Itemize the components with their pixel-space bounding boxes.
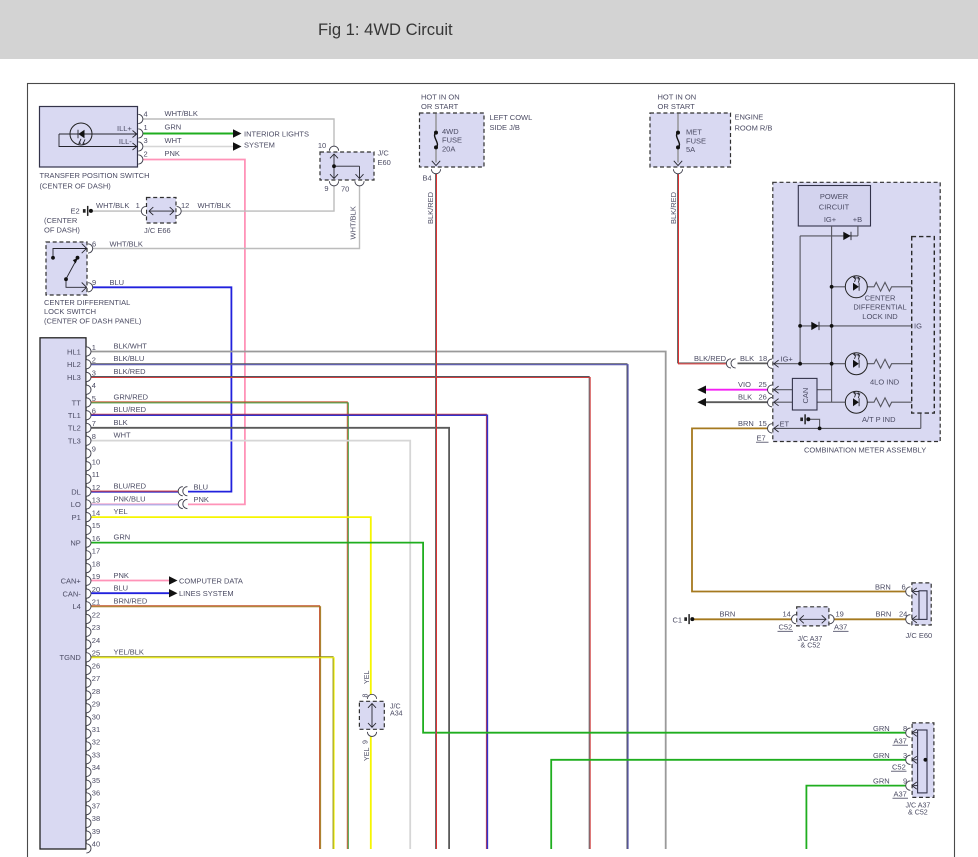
svg-text:26: 26	[759, 393, 767, 402]
svg-text:BLK/RED: BLK/RED	[426, 191, 435, 224]
svg-text:14: 14	[783, 610, 791, 619]
svg-text:3: 3	[144, 136, 148, 145]
svg-text:E60: E60	[378, 158, 391, 167]
svg-text:CAN-: CAN-	[62, 589, 81, 598]
svg-text:BLK/WHT: BLK/WHT	[114, 342, 148, 351]
svg-text:BLU: BLU	[194, 482, 209, 491]
svg-text:P1: P1	[72, 513, 81, 522]
svg-text:MET: MET	[686, 128, 702, 137]
svg-text:& C52: & C52	[801, 641, 821, 649]
svg-text:33: 33	[92, 751, 100, 760]
svg-text:BLU/RED: BLU/RED	[114, 405, 147, 414]
svg-text:IG: IG	[914, 322, 922, 331]
svg-text:ILL-: ILL-	[119, 137, 132, 146]
svg-text:11: 11	[92, 470, 100, 479]
svg-text:IG+: IG+	[824, 215, 837, 224]
svg-text:PNK/BLU: PNK/BLU	[114, 494, 146, 503]
svg-text:BLU: BLU	[114, 584, 129, 593]
svg-text:12: 12	[181, 201, 189, 210]
svg-text:BLK: BLK	[114, 418, 128, 427]
svg-text:12: 12	[92, 483, 100, 492]
svg-text:+B: +B	[853, 215, 862, 224]
svg-text:29: 29	[92, 700, 100, 709]
svg-text:IG+: IG+	[781, 355, 794, 364]
svg-text:14: 14	[92, 508, 100, 517]
svg-text:BLK/RED: BLK/RED	[669, 191, 678, 224]
svg-text:NP: NP	[70, 538, 80, 547]
svg-text:LOCK SWITCH: LOCK SWITCH	[44, 307, 96, 316]
svg-text:FUSE: FUSE	[686, 136, 706, 145]
svg-text:ET: ET	[780, 420, 790, 429]
svg-text:GRN/RED: GRN/RED	[114, 393, 149, 402]
svg-text:20A: 20A	[442, 144, 455, 153]
svg-text:BRN: BRN	[876, 610, 892, 619]
svg-text:15: 15	[759, 419, 767, 428]
svg-text:POWER: POWER	[820, 192, 849, 201]
svg-text:9: 9	[92, 445, 96, 454]
svg-text:15: 15	[92, 521, 100, 530]
svg-text:B4: B4	[423, 173, 432, 182]
svg-text:WHT/BLK: WHT/BLK	[349, 206, 358, 239]
svg-text:J/C E66: J/C E66	[144, 226, 171, 235]
svg-text:(CENTER OF DASH PANEL): (CENTER OF DASH PANEL)	[44, 317, 142, 326]
svg-text:31: 31	[92, 725, 100, 734]
svg-text:ILL+: ILL+	[117, 124, 132, 133]
svg-text:BRN: BRN	[738, 419, 754, 428]
svg-text:LOCK IND: LOCK IND	[862, 312, 898, 321]
svg-text:PNK: PNK	[194, 495, 209, 504]
svg-text:3: 3	[903, 751, 907, 760]
svg-text:CAN+: CAN+	[61, 577, 82, 586]
svg-text:YEL: YEL	[363, 748, 371, 761]
svg-text:A37: A37	[834, 622, 847, 631]
svg-text:WHT/BLK: WHT/BLK	[198, 201, 231, 210]
svg-text:13: 13	[92, 496, 100, 505]
svg-text:TL2: TL2	[68, 424, 81, 433]
svg-text:DL: DL	[71, 487, 81, 496]
svg-text:16: 16	[92, 534, 100, 543]
svg-text:BRN: BRN	[875, 582, 891, 591]
svg-text:19: 19	[836, 610, 844, 619]
svg-text:21: 21	[92, 598, 100, 607]
svg-text:& C52: & C52	[908, 808, 928, 816]
svg-text:23: 23	[92, 623, 100, 632]
svg-text:COMPUTER DATA: COMPUTER DATA	[179, 577, 243, 586]
svg-text:36: 36	[92, 789, 100, 798]
svg-text:35: 35	[92, 776, 100, 785]
svg-text:DIFFERENTIAL: DIFFERENTIAL	[853, 303, 906, 312]
svg-text:CENTER DIFFERENTIAL: CENTER DIFFERENTIAL	[44, 298, 130, 307]
svg-text:GRN: GRN	[873, 724, 890, 733]
svg-text:70: 70	[341, 185, 349, 194]
svg-text:BLU/RED: BLU/RED	[114, 482, 147, 491]
svg-text:22: 22	[92, 610, 100, 619]
svg-text:9: 9	[362, 740, 370, 744]
svg-text:37: 37	[92, 801, 100, 810]
svg-text:TRANSFER POSITION SWITCH: TRANSFER POSITION SWITCH	[40, 171, 150, 180]
svg-text:1: 1	[136, 201, 140, 210]
svg-text:INTERIOR LIGHTS: INTERIOR LIGHTS	[244, 129, 309, 138]
svg-text:CAN: CAN	[801, 388, 810, 404]
svg-text:BLK/RED: BLK/RED	[114, 367, 147, 376]
svg-text:6: 6	[92, 239, 96, 248]
svg-text:SYSTEM: SYSTEM	[244, 140, 275, 149]
svg-text:TGND: TGND	[60, 653, 82, 662]
svg-text:BRN/RED: BRN/RED	[114, 596, 148, 605]
svg-text:24: 24	[899, 610, 907, 619]
svg-text:GRN: GRN	[873, 751, 890, 760]
svg-text:OF DASH): OF DASH)	[44, 226, 80, 235]
svg-text:10: 10	[92, 458, 100, 467]
svg-text:26: 26	[92, 661, 100, 670]
svg-text:HOT IN ON: HOT IN ON	[421, 93, 460, 102]
svg-text:4LO IND: 4LO IND	[870, 378, 900, 387]
svg-text:BLK: BLK	[738, 393, 752, 402]
svg-text:25: 25	[759, 380, 767, 389]
svg-text:(CENTER: (CENTER	[44, 216, 78, 225]
svg-text:GRN: GRN	[873, 777, 890, 786]
svg-text:PNK: PNK	[114, 571, 129, 580]
svg-text:SIDE J/B: SIDE J/B	[490, 123, 520, 132]
svg-text:WHT: WHT	[114, 431, 131, 440]
svg-text:FUSE: FUSE	[442, 136, 462, 145]
svg-text:LEFT COWL: LEFT COWL	[490, 113, 533, 122]
svg-text:4WD: 4WD	[442, 127, 459, 136]
svg-text:E7: E7	[757, 433, 766, 442]
svg-text:25: 25	[92, 649, 100, 658]
svg-text:19: 19	[92, 572, 100, 581]
svg-text:C52: C52	[779, 622, 793, 631]
svg-text:GRN: GRN	[165, 123, 182, 132]
svg-text:20: 20	[92, 585, 100, 594]
svg-text:HOT IN ON: HOT IN ON	[658, 93, 697, 102]
svg-text:L4: L4	[72, 602, 80, 611]
svg-text:J/C E60: J/C E60	[906, 631, 933, 640]
svg-text:TL3: TL3	[68, 437, 81, 446]
svg-text:LO: LO	[71, 500, 81, 509]
svg-text:28: 28	[92, 687, 100, 696]
svg-text:C52: C52	[892, 762, 906, 771]
svg-text:COMBINATION METER ASSEMBLY: COMBINATION METER ASSEMBLY	[804, 445, 926, 454]
svg-text:6: 6	[902, 582, 906, 591]
svg-text:TL1: TL1	[68, 411, 81, 420]
svg-text:TT: TT	[72, 398, 82, 407]
svg-text:10: 10	[318, 141, 326, 150]
svg-text:HL1: HL1	[67, 347, 81, 356]
svg-text:4: 4	[92, 381, 96, 390]
svg-text:2: 2	[92, 356, 96, 365]
svg-text:YEL: YEL	[114, 507, 128, 516]
svg-text:WHT/BLK: WHT/BLK	[165, 109, 198, 118]
svg-text:8: 8	[362, 694, 370, 698]
svg-text:CIRCUIT: CIRCUIT	[819, 203, 850, 212]
svg-text:18: 18	[759, 354, 767, 363]
svg-text:8: 8	[903, 724, 907, 733]
svg-text:5: 5	[92, 394, 96, 403]
svg-text:BLK/RED: BLK/RED	[694, 354, 727, 363]
svg-text:J/C: J/C	[378, 149, 390, 158]
svg-text:38: 38	[92, 814, 100, 823]
svg-text:WHT/BLK: WHT/BLK	[96, 201, 129, 210]
svg-text:6: 6	[92, 407, 96, 416]
svg-text:9: 9	[324, 184, 328, 193]
svg-text:4: 4	[144, 109, 148, 118]
svg-text:34: 34	[92, 763, 100, 772]
svg-text:1: 1	[144, 123, 148, 132]
svg-text:GRN: GRN	[114, 533, 131, 542]
svg-text:OR START: OR START	[421, 102, 459, 111]
svg-text:5A: 5A	[686, 145, 695, 154]
svg-text:C1: C1	[673, 616, 683, 625]
svg-text:OR START: OR START	[658, 102, 696, 111]
svg-text:WHT/BLK: WHT/BLK	[110, 239, 143, 248]
svg-text:HL3: HL3	[67, 373, 81, 382]
svg-text:BLK/BLU: BLK/BLU	[114, 354, 145, 363]
svg-text:BLU: BLU	[110, 278, 125, 287]
svg-text:BLK: BLK	[740, 354, 754, 363]
svg-text:YEL/BLK: YEL/BLK	[114, 647, 144, 656]
svg-text:24: 24	[92, 636, 100, 645]
svg-text:18: 18	[92, 559, 100, 568]
svg-text:YEL: YEL	[363, 671, 371, 684]
svg-text:CENTER: CENTER	[865, 294, 896, 303]
svg-text:A/T P IND: A/T P IND	[862, 415, 896, 424]
svg-text:1: 1	[92, 343, 96, 352]
svg-text:VIO: VIO	[738, 380, 751, 389]
svg-text:ENGINE: ENGINE	[735, 112, 764, 121]
svg-text:A37: A37	[894, 736, 907, 745]
svg-text:BRN: BRN	[720, 610, 736, 619]
svg-text:17: 17	[92, 547, 100, 556]
svg-text:9: 9	[903, 777, 907, 786]
svg-text:LINES SYSTEM: LINES SYSTEM	[179, 589, 234, 598]
svg-text:A34: A34	[390, 709, 403, 717]
svg-text:39: 39	[92, 827, 100, 836]
svg-text:30: 30	[92, 712, 100, 721]
svg-text:2: 2	[144, 150, 148, 159]
svg-text:E2: E2	[71, 206, 80, 215]
svg-text:ROOM R/B: ROOM R/B	[735, 124, 773, 133]
svg-text:32: 32	[92, 738, 100, 747]
svg-text:8: 8	[92, 432, 96, 441]
svg-text:(CENTER OF DASH): (CENTER OF DASH)	[40, 182, 112, 191]
svg-text:27: 27	[92, 674, 100, 683]
svg-text:WHT: WHT	[165, 136, 182, 145]
svg-text:PNK: PNK	[165, 149, 180, 158]
svg-text:A37: A37	[894, 789, 907, 798]
svg-text:7: 7	[92, 419, 96, 428]
svg-text:3: 3	[92, 368, 96, 377]
svg-text:9: 9	[92, 278, 96, 287]
svg-text:HL2: HL2	[67, 360, 81, 369]
svg-text:40: 40	[92, 840, 100, 849]
